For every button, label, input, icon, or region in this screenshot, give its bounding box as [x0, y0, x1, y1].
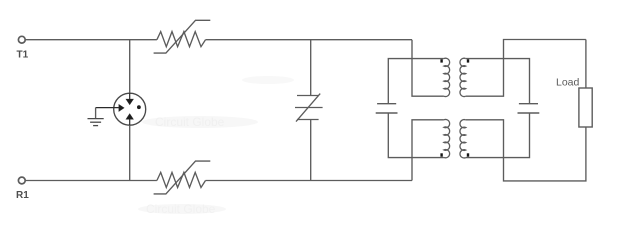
inductor L1 coil — [444, 58, 450, 96]
wire L1 outer (top-left winding lead) — [412, 40, 444, 96]
svg-text:T1: T1 — [17, 49, 29, 60]
wire L2 lead from capacitor — [388, 113, 444, 157]
svg-text:Load: Load — [556, 77, 580, 89]
terminal R1 — [18, 177, 25, 184]
ground stub wire — [95, 108, 97, 119]
polarity tick L1 — [440, 59, 442, 62]
terminal T1 — [18, 36, 25, 43]
gas dot — [137, 105, 141, 109]
wire top rail left — [25, 39, 157, 41]
svg-text:Circuit Globe: Circuit Globe — [155, 115, 225, 129]
svg-text:R1: R1 — [16, 190, 29, 201]
varistor diagonal — [296, 94, 320, 122]
wire varistor branch top — [310, 40, 312, 96]
capacitor C2 top plate — [519, 103, 538, 105]
wire L2 top lead to bottom rail — [412, 120, 444, 181]
resistor R-bottom zigzag — [157, 172, 206, 187]
capacitor C1 top plate — [377, 103, 396, 105]
gas discharge tube V1 circle — [114, 93, 146, 125]
wire top rail right — [206, 39, 413, 41]
varistor MOV bars — [297, 95, 319, 97]
polarity tick L3 — [467, 59, 469, 62]
wire L4 top lead to load bottom — [466, 120, 586, 181]
resistor R-top adjustment diagonal — [154, 20, 211, 53]
electrode arrow left (from ground) — [96, 105, 124, 112]
inductor L3 coil (top-right) — [460, 58, 466, 96]
svg-text:Circuit Globe: Circuit Globe — [146, 202, 216, 216]
load resistor box — [579, 88, 592, 127]
ground symbol — [88, 119, 104, 126]
inductor L2 coil — [444, 119, 450, 157]
inductor L4 coil (bottom-right) — [460, 120, 466, 158]
resistor R-top zigzag — [157, 32, 206, 47]
watermark — [138, 76, 294, 216]
wire GDT branch top — [129, 40, 131, 93]
wire GDT branch bottom — [129, 125, 131, 180]
wire L3 top to capacitor C2 — [466, 59, 530, 104]
wire bottom rail left — [25, 180, 157, 182]
polarity tick L2 — [440, 153, 442, 156]
wire load top lead — [585, 40, 587, 89]
electrode arrow bottom — [126, 114, 133, 125]
wire varistor branch bottom — [310, 120, 312, 181]
capacitor C1 bottom plate — [376, 112, 398, 114]
wire L1 top to capacitor — [388, 59, 444, 104]
polarity tick L4 — [467, 153, 469, 156]
resistor R-bottom adjustment diagonal — [154, 161, 211, 194]
wire C2 to L4 — [466, 113, 530, 157]
electrode arrow top — [126, 93, 133, 104]
capacitor C2 bottom plate — [518, 112, 540, 114]
wire bottom rail right — [206, 180, 413, 182]
wire L3 bottom to load top — [466, 40, 586, 97]
